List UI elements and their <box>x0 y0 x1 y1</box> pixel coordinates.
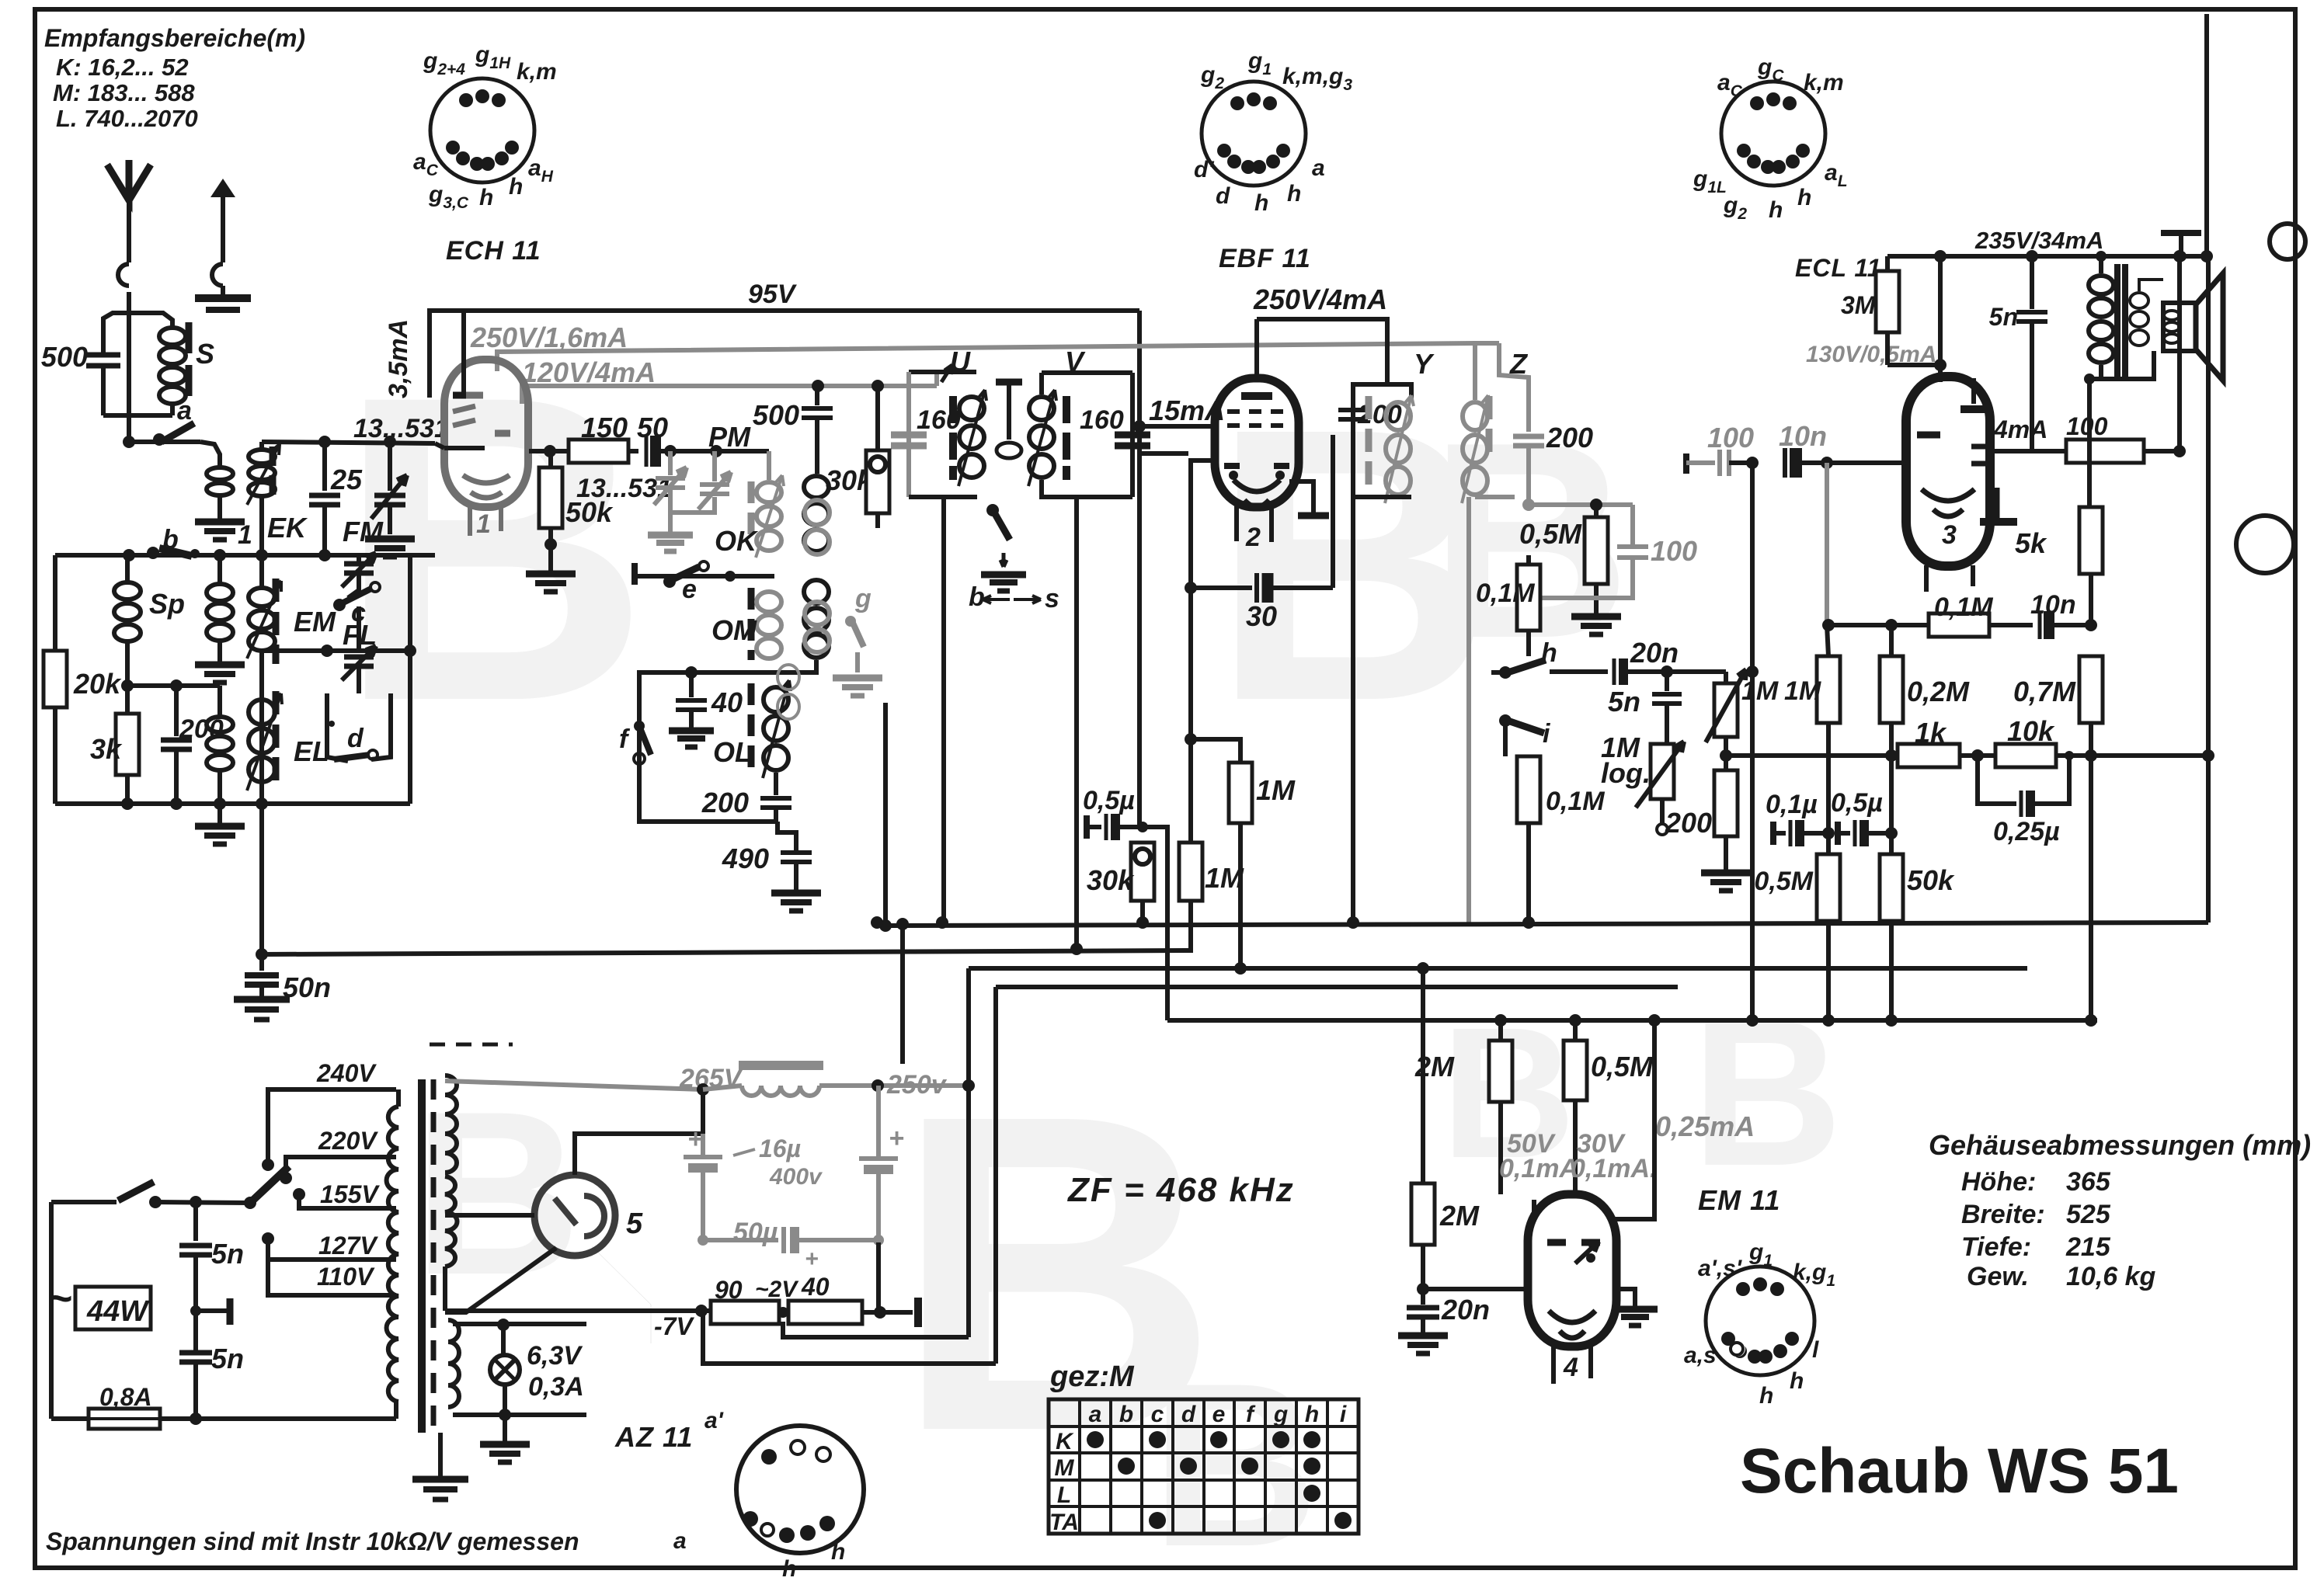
svg-text:Gew.: Gew. <box>1967 1262 2029 1291</box>
svg-text:1: 1 <box>476 509 491 539</box>
svg-text:215: 215 <box>2065 1232 2111 1262</box>
svg-text:i: i <box>1543 719 1551 749</box>
svg-text:EM 11: EM 11 <box>1698 1184 1780 1216</box>
svg-text:FM: FM <box>343 516 384 547</box>
svg-text:44W: 44W <box>86 1295 150 1328</box>
svg-text:1M: 1M <box>1205 862 1244 894</box>
svg-text:h: h <box>1790 1368 1804 1394</box>
svg-text:100: 100 <box>1651 535 1697 567</box>
svg-text:e: e <box>682 575 697 604</box>
svg-text:k,m: k,m <box>1804 70 1844 96</box>
svg-text:2M: 2M <box>1414 1051 1455 1082</box>
svg-text:6,3V: 6,3V <box>527 1341 583 1371</box>
svg-text:b: b <box>162 525 179 554</box>
svg-text:100: 100 <box>1707 422 1754 453</box>
svg-text:20n: 20n <box>1630 637 1679 669</box>
svg-text:~2V: ~2V <box>755 1277 799 1302</box>
svg-text:10,6 kg: 10,6 kg <box>2066 1262 2156 1291</box>
svg-text:95V: 95V <box>748 280 798 309</box>
svg-text:B: B <box>413 1062 582 1323</box>
svg-text:ZF = 468 kHz: ZF = 468 kHz <box>1066 1171 1295 1209</box>
svg-text:4: 4 <box>1563 1353 1578 1382</box>
svg-text:d: d <box>1216 183 1230 209</box>
svg-text:a: a <box>177 396 192 426</box>
svg-text:~: ~ <box>48 1275 73 1322</box>
svg-text:20n: 20n <box>1441 1294 1490 1326</box>
svg-text:Sp: Sp <box>149 588 185 620</box>
svg-text:0,5M: 0,5M <box>1591 1051 1654 1082</box>
svg-text:250v: 250v <box>886 1070 948 1100</box>
svg-text:200: 200 <box>1546 422 1593 453</box>
svg-text:g: g <box>854 584 871 613</box>
svg-text:240V: 240V <box>316 1059 377 1087</box>
svg-text:AZ 11: AZ 11 <box>614 1421 693 1453</box>
svg-text:50: 50 <box>637 412 668 443</box>
svg-text:2M: 2M <box>1439 1200 1480 1232</box>
svg-text:50n: 50n <box>283 971 331 1003</box>
svg-text:0,5µ: 0,5µ <box>1083 786 1135 815</box>
svg-text:k,m: k,m <box>517 59 557 85</box>
svg-text:16µ: 16µ <box>759 1135 801 1162</box>
svg-text:200: 200 <box>701 787 749 818</box>
svg-text:a',s': a',s' <box>1698 1256 1742 1281</box>
svg-text:25: 25 <box>330 464 363 495</box>
svg-text:1k: 1k <box>1915 717 1947 749</box>
svg-text:L: L <box>1057 1482 1071 1508</box>
svg-text:B: B <box>1692 976 1843 1210</box>
svg-text:a: a <box>1312 155 1325 181</box>
svg-text:2: 2 <box>1245 523 1261 552</box>
svg-text:S: S <box>196 338 214 370</box>
svg-text:500: 500 <box>41 341 88 373</box>
svg-text:c: c <box>1151 1402 1164 1427</box>
svg-text:+: + <box>889 1124 904 1153</box>
svg-text:400v: 400v <box>769 1164 823 1190</box>
svg-text:5n: 5n <box>1989 303 2018 331</box>
svg-text:h: h <box>831 1539 845 1565</box>
svg-text:EBF 11: EBF 11 <box>1219 244 1311 273</box>
svg-text:Y: Y <box>1414 348 1435 380</box>
svg-text:0,5M: 0,5M <box>1519 518 1582 550</box>
svg-text:5n: 5n <box>211 1343 244 1374</box>
svg-text:EM: EM <box>294 606 336 638</box>
svg-text:h: h <box>782 1556 796 1582</box>
svg-text:30k: 30k <box>1087 864 1135 896</box>
svg-text:0,3A: 0,3A <box>528 1372 584 1402</box>
svg-text:Breite:: Breite: <box>1961 1200 2045 1229</box>
svg-text:h: h <box>1305 1402 1319 1427</box>
svg-text:b: b <box>1119 1402 1133 1427</box>
svg-text:1M: 1M <box>1784 676 1821 706</box>
svg-text:50k: 50k <box>565 496 614 528</box>
svg-text:160: 160 <box>1080 405 1124 435</box>
svg-text:d: d <box>347 724 364 753</box>
svg-text:127V: 127V <box>318 1232 378 1260</box>
svg-text:b: b <box>969 582 985 612</box>
svg-text:5n: 5n <box>211 1238 244 1270</box>
svg-text:100: 100 <box>2066 412 2108 440</box>
svg-text:K: K <box>1056 1429 1074 1454</box>
svg-text:365: 365 <box>2066 1167 2111 1197</box>
svg-text:log.: log. <box>1601 757 1651 789</box>
svg-text:40: 40 <box>711 686 743 718</box>
svg-text:a': a' <box>705 1408 724 1433</box>
svg-text:5: 5 <box>626 1208 643 1240</box>
svg-text:1M: 1M <box>1741 676 1779 706</box>
svg-text:4mA: 4mA <box>1993 415 2047 443</box>
svg-text:h: h <box>479 185 493 210</box>
svg-text:EK: EK <box>267 512 308 544</box>
svg-text:200: 200 <box>1665 807 1712 839</box>
svg-text:1: 1 <box>238 520 252 550</box>
svg-text:250V/4mA: 250V/4mA <box>1253 283 1387 315</box>
svg-text:Gehäuseabmessungen (mm): Gehäuseabmessungen (mm) <box>1929 1129 2311 1161</box>
svg-text:10n: 10n <box>2030 590 2076 620</box>
svg-text:0,7M: 0,7M <box>2013 676 2076 707</box>
svg-text:L. 740...2070: L. 740...2070 <box>56 105 198 132</box>
svg-text:Spannungen sind mit Instr: Spannungen sind mit Instr 10kΩ/V gemesse… <box>46 1527 579 1555</box>
svg-text:a: a <box>1089 1402 1102 1427</box>
svg-text:50k: 50k <box>1907 864 1955 896</box>
svg-text:Empfangsbereiche(m): Empfangsbereiche(m) <box>44 24 305 52</box>
svg-text:0,1µ: 0,1µ <box>1766 790 1818 819</box>
svg-text:3: 3 <box>1942 520 1957 550</box>
svg-text:0,5M: 0,5M <box>1754 867 1813 896</box>
svg-text:3,5mA: 3,5mA <box>384 319 413 398</box>
svg-text:3k: 3k <box>90 733 123 765</box>
svg-text:OM: OM <box>711 614 757 646</box>
svg-text:a: a <box>673 1528 687 1554</box>
svg-text:490: 490 <box>722 843 769 874</box>
svg-text:235V/34mA: 235V/34mA <box>1974 227 2103 254</box>
svg-text:h: h <box>1797 185 1811 210</box>
svg-text:20k: 20k <box>73 668 122 700</box>
svg-text:0,5µ: 0,5µ <box>1831 788 1883 818</box>
svg-text:s: s <box>1045 584 1059 613</box>
svg-text:Höhe:: Höhe: <box>1961 1167 2036 1197</box>
svg-text:5n: 5n <box>1608 686 1640 718</box>
svg-text:h: h <box>1769 197 1783 223</box>
svg-text:EL: EL <box>294 735 329 767</box>
svg-text:h: h <box>509 174 523 200</box>
svg-text:M: M <box>1055 1455 1075 1481</box>
svg-text:30: 30 <box>1246 600 1277 632</box>
svg-text:13...531: 13...531 <box>353 414 449 443</box>
svg-text:d': d' <box>1194 157 1214 182</box>
svg-text:220V: 220V <box>318 1127 378 1155</box>
svg-text:e: e <box>1212 1402 1226 1427</box>
svg-text:Schaub WS 51: Schaub WS 51 <box>1740 1436 2179 1506</box>
svg-text:40: 40 <box>801 1273 830 1301</box>
svg-text:d: d <box>1181 1402 1196 1427</box>
svg-text:0,1mA.: 0,1mA. <box>1571 1154 1658 1183</box>
svg-text:Tiefe:: Tiefe: <box>1961 1232 2031 1262</box>
svg-text:3M: 3M <box>1841 291 1877 319</box>
svg-text:5k: 5k <box>2015 527 2047 559</box>
svg-text:M: 183... 588: M: 183... 588 <box>53 79 195 106</box>
svg-text:ECL 11: ECL 11 <box>1795 254 1882 282</box>
svg-text:l: l <box>1812 1337 1819 1363</box>
svg-text:a,s: a,s <box>1684 1343 1717 1368</box>
svg-text:0,1M: 0,1M <box>1546 787 1605 816</box>
svg-text:0,25mA: 0,25mA <box>1655 1110 1755 1142</box>
svg-text:K: 16,2... 52: K: 16,2... 52 <box>56 54 189 81</box>
svg-text:gez:M: gez:M <box>1049 1360 1135 1393</box>
svg-text:ECH 11: ECH 11 <box>446 236 541 266</box>
svg-text:i: i <box>1340 1402 1347 1427</box>
svg-text:10n: 10n <box>1779 420 1827 452</box>
svg-text:h: h <box>1287 181 1301 207</box>
svg-text:500: 500 <box>753 399 799 431</box>
svg-text:150: 150 <box>581 412 628 443</box>
svg-text:155V: 155V <box>320 1180 380 1208</box>
svg-text:PM: PM <box>708 421 751 453</box>
svg-text:-7V: -7V <box>654 1312 694 1340</box>
svg-text:120V/4mA: 120V/4mA <box>522 356 656 388</box>
svg-text:h: h <box>1254 190 1268 216</box>
svg-text:0,1mA: 0,1mA <box>1499 1154 1578 1183</box>
svg-text:525: 525 <box>2066 1200 2111 1229</box>
svg-text:g: g <box>1273 1402 1288 1427</box>
svg-text:OL: OL <box>713 736 752 768</box>
svg-text:TA: TA <box>1049 1510 1079 1535</box>
svg-text:+: + <box>805 1246 819 1272</box>
svg-text:0,1M: 0,1M <box>1934 592 1993 622</box>
svg-text:0,25µ: 0,25µ <box>1993 817 2060 846</box>
svg-text:OK: OK <box>715 525 759 557</box>
svg-text:110V: 110V <box>317 1263 375 1291</box>
svg-text:0,2M: 0,2M <box>1907 676 1970 707</box>
svg-text:h: h <box>1759 1383 1773 1409</box>
svg-text:0,1M: 0,1M <box>1476 579 1535 608</box>
svg-text:1M: 1M <box>1256 774 1296 806</box>
svg-text:50µ: 50µ <box>733 1218 778 1247</box>
svg-text:10k: 10k <box>2007 715 2055 747</box>
